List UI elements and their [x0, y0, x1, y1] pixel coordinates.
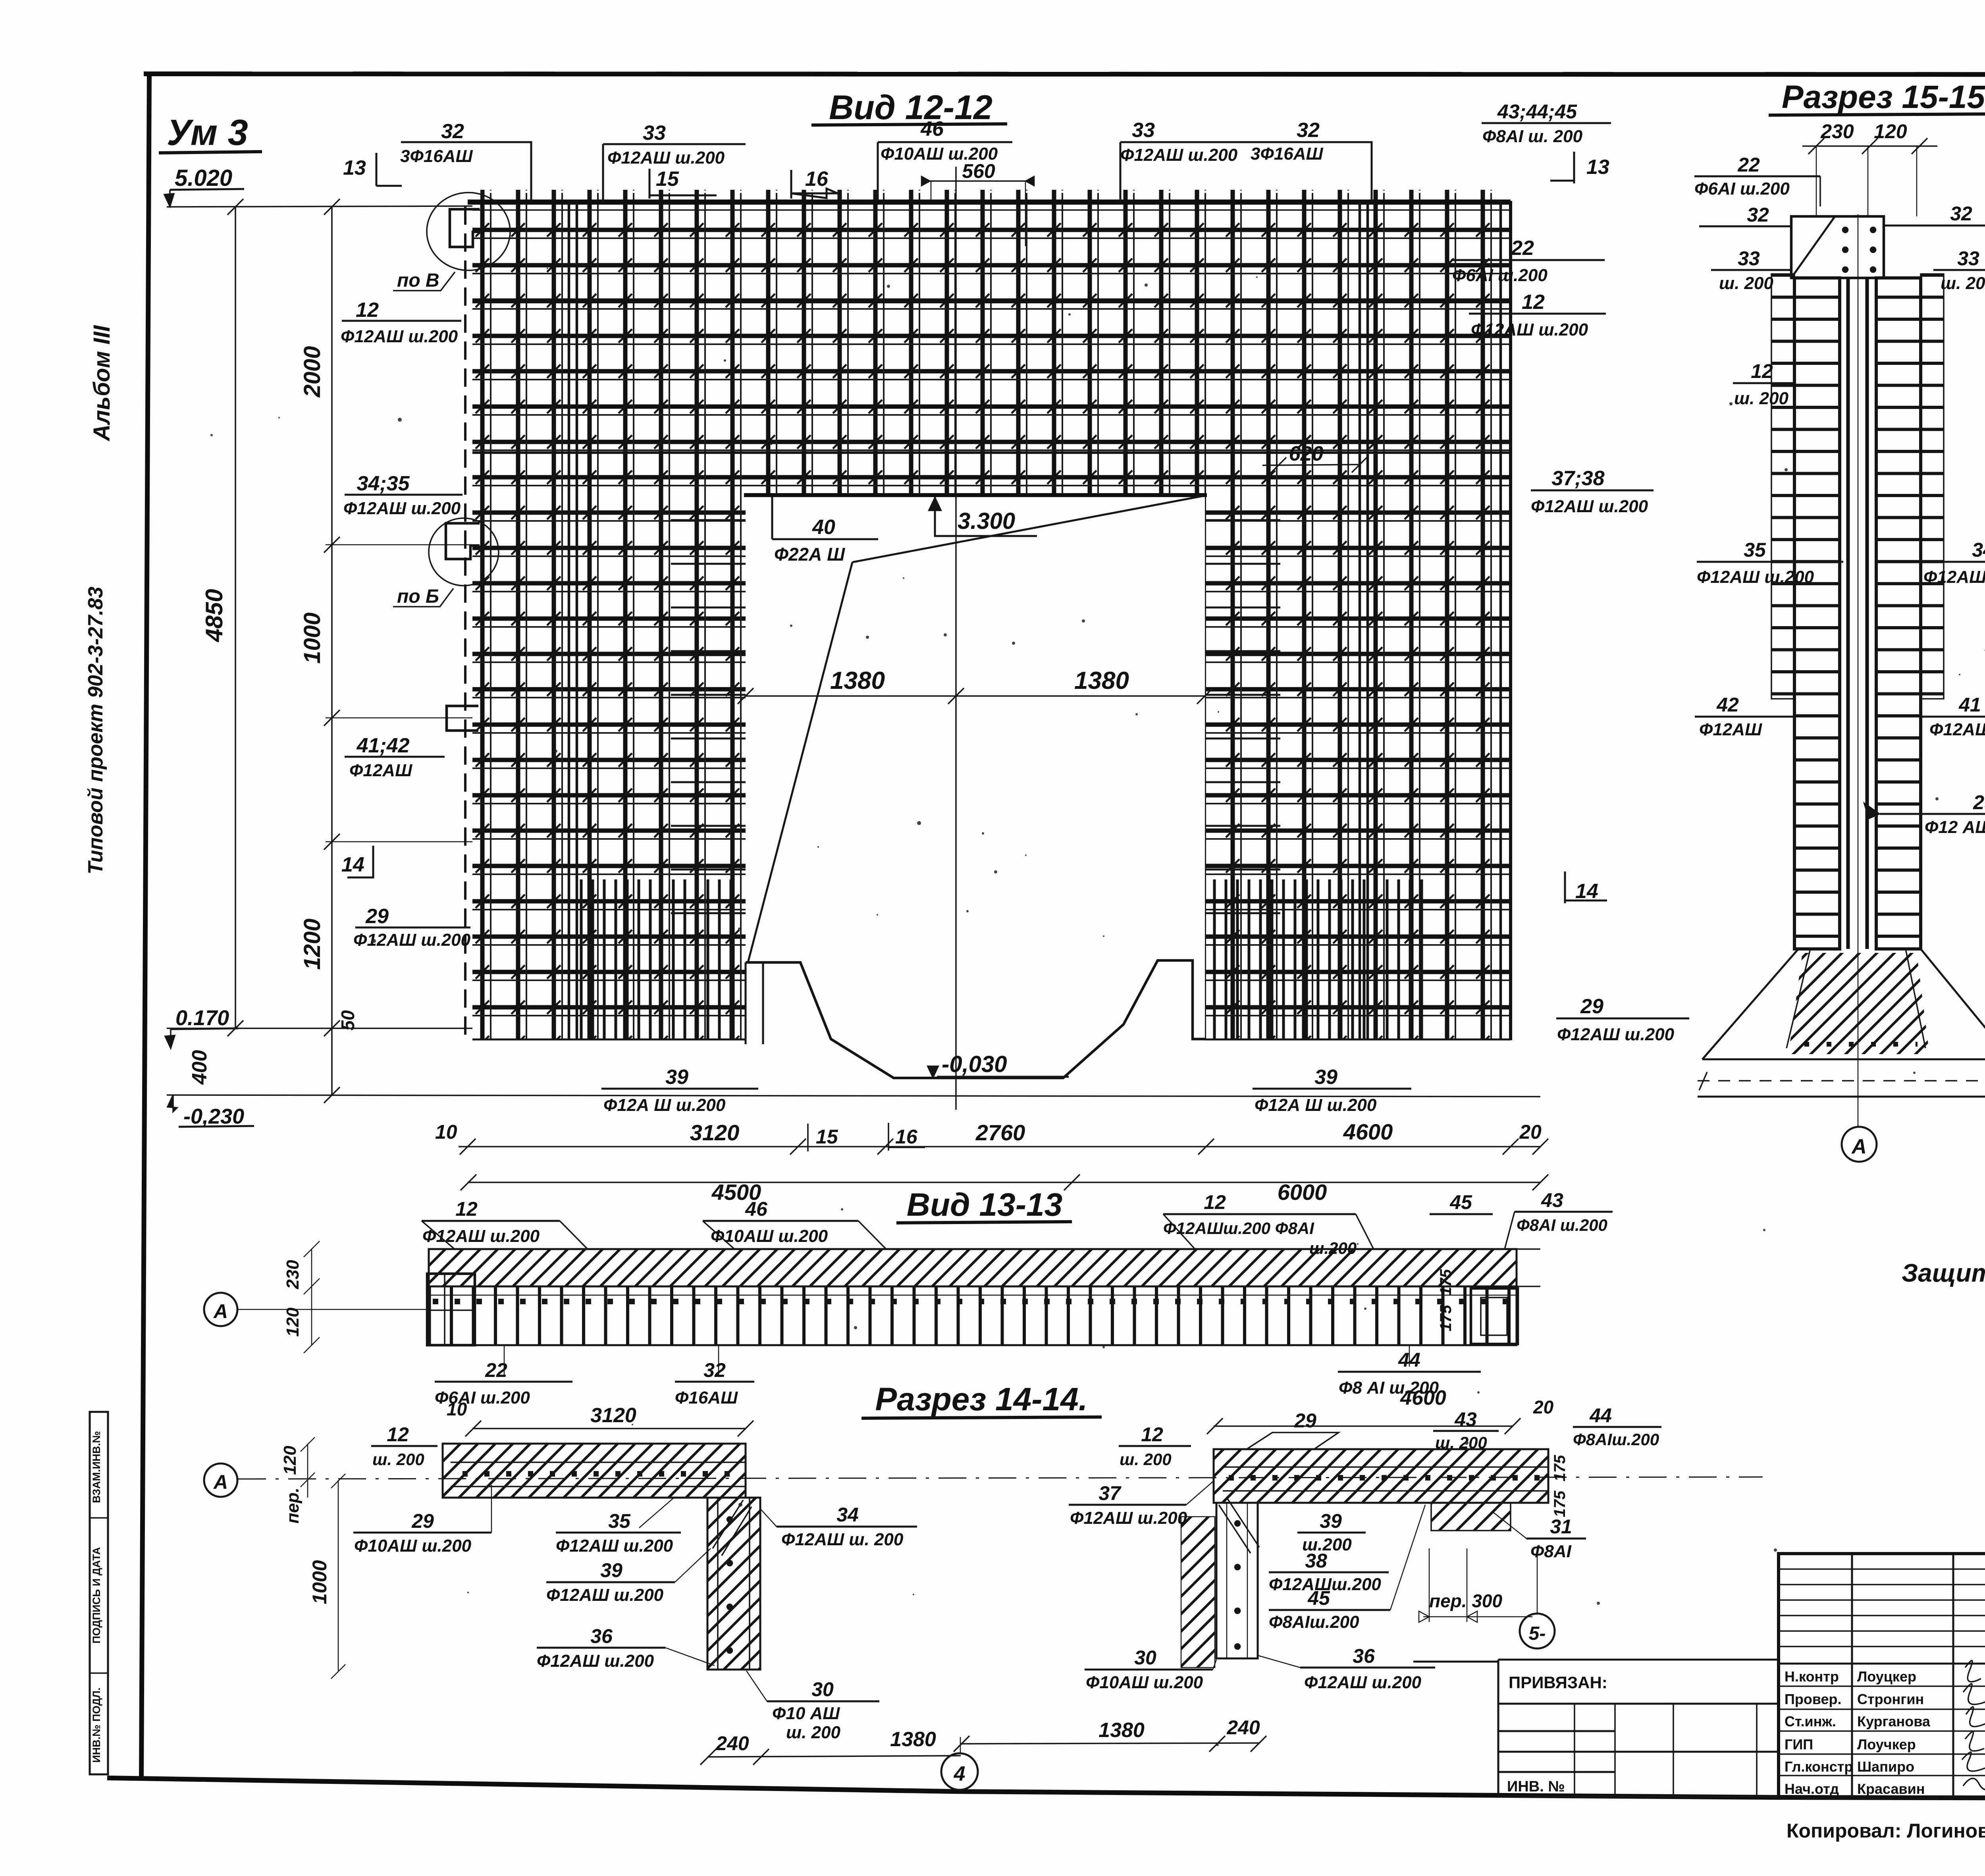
column head box 15-15 [1791, 216, 1884, 278]
svg-text:1380: 1380 [1074, 667, 1129, 694]
svg-text:29: 29 [1580, 995, 1603, 1018]
svg-text:Ф12АШ ш.200: Ф12АШ ш.200 [353, 930, 471, 950]
label 40 Ф22АIII [772, 497, 878, 539]
svg-text:175: 175 [1551, 1490, 1569, 1517]
svg-text:Ф12АШ ш.200: Ф12АШ ш.200 [343, 499, 461, 518]
svg-text:14: 14 [341, 853, 364, 876]
svg-text:Гл.констр: Гл.констр [1785, 1758, 1853, 1775]
svg-text:ш. 200: ш. 200 [786, 1723, 841, 1742]
svg-text:ш.200: ш.200 [1309, 1239, 1357, 1257]
svg-text:ш. 200: ш. 200 [1719, 274, 1774, 293]
svg-text:1000: 1000 [299, 612, 325, 663]
svg-text:ВЗАМ.ИНВ.№: ВЗАМ.ИНВ.№ [91, 1431, 102, 1503]
svg-text:13: 13 [343, 156, 366, 179]
svg-text:Ф10 АШ: Ф10 АШ [772, 1704, 840, 1723]
svg-text:пер. 300: пер. 300 [1429, 1591, 1503, 1611]
right end cap (13-13) [1471, 1288, 1518, 1344]
svg-text:32: 32 [1747, 204, 1769, 226]
slab band left detail [443, 1444, 746, 1498]
trough profile at opening bottom [746, 960, 1206, 1078]
top border [144, 74, 1985, 75]
svg-text:Курганова: Курганова [1857, 1713, 1931, 1729]
svg-text:Ф12АШ ш.200: Ф12АШ ш.200 [1531, 497, 1648, 516]
svg-text:22: 22 [1737, 154, 1760, 176]
dim 3120 above slab [472, 1428, 746, 1429]
svg-text:Вид 12-12: Вид 12-12 [829, 89, 992, 127]
svg-text:1380: 1380 [1098, 1719, 1145, 1742]
svg-text:37: 37 [1098, 1482, 1122, 1504]
svg-text:20: 20 [1519, 1121, 1542, 1143]
svg-text:44: 44 [1589, 1404, 1612, 1427]
svg-text:Лоучкер: Лоучкер [1857, 1736, 1916, 1753]
scan speckles [210, 268, 1985, 1746]
svg-text:ш. 200: ш. 200 [1120, 1450, 1172, 1469]
svg-text:560: 560 [962, 160, 995, 182]
svg-text:ПОДПИСЬ И ДАТА: ПОДПИСЬ И ДАТА [91, 1547, 102, 1643]
ladder band (13-13) [429, 1286, 1517, 1345]
svg-text:Ф12АШ ш.200: Ф12АШ ш.200 [1697, 567, 1814, 587]
svg-text:2000: 2000 [299, 346, 325, 397]
svg-text:ш. 200: ш. 200 [1734, 389, 1789, 408]
corner brace left detail [713, 1500, 752, 1556]
svg-text:33: 33 [1132, 119, 1155, 142]
hook detail 3 [447, 706, 478, 731]
svg-text:30: 30 [1134, 1647, 1156, 1669]
svg-text:41: 41 [1958, 694, 1981, 716]
svg-text:ПРИВЯЗАН:: ПРИВЯЗАН: [1509, 1673, 1607, 1692]
svg-text:45: 45 [1449, 1191, 1472, 1213]
svg-text:3120: 3120 [690, 1120, 740, 1145]
svg-text:16: 16 [805, 168, 829, 191]
dim 230/120 (13-13 left) [311, 1249, 312, 1345]
svg-text:Нач.отд: Нач.отд [1785, 1781, 1839, 1797]
svg-text:Ф12АШ: Ф12АШ [349, 761, 412, 780]
svg-text:36: 36 [1353, 1645, 1375, 1667]
svg-text:по В: по В [397, 270, 439, 291]
svg-text:5-: 5- [1529, 1623, 1546, 1644]
svg-text:620: 620 [1289, 442, 1324, 465]
bottom dim line 2 [468, 1182, 1540, 1183]
svg-text:230: 230 [1820, 120, 1854, 143]
left border [141, 74, 149, 1780]
svg-text:29: 29 [365, 905, 389, 928]
svg-text:Ф22А Ш: Ф22А Ш [774, 544, 845, 565]
circle 4 mark [941, 1753, 978, 1790]
footing 15-15 [1702, 949, 1985, 1059]
svg-text:Ф8АI ш. 200: Ф8АI ш. 200 [1482, 127, 1583, 146]
mesh bottom edge [472, 1039, 746, 1041]
svg-text:0.170: 0.170 [175, 1006, 229, 1030]
svg-text:Ст.инж.: Ст.инж. [1785, 1713, 1836, 1729]
svg-text:Защитный слой бетона - 20 мм.: Защитный слой бетона - 20 мм. [1902, 1259, 1985, 1287]
svg-text:Шапиро: Шапиро [1857, 1758, 1914, 1775]
center axis 15-15 [1858, 214, 1859, 1127]
svg-text:Провер.: Провер. [1785, 1691, 1842, 1707]
svg-text:12: 12 [455, 1198, 478, 1220]
datum line top (5.020 level) [167, 206, 472, 207]
svg-text:4600: 4600 [1343, 1119, 1393, 1144]
svg-text:43: 43 [1454, 1408, 1477, 1431]
left hidden edge dashed [464, 206, 466, 1040]
central wall lines (15-15) [1848, 278, 1867, 949]
svg-text:39: 39 [665, 1066, 688, 1089]
svg-text:Ф12АШ: Ф12АШ [1699, 720, 1762, 739]
svg-text:ш. 200: ш. 200 [372, 1450, 424, 1469]
svg-text:Красавин: Красавин [1857, 1781, 1925, 1797]
title block outer frame [1779, 1554, 1985, 1798]
vertical leg right detail [1216, 1503, 1258, 1658]
svg-text:Ф12АШ ш.200: Ф12АШ ш.200 [1923, 567, 1985, 587]
svg-text:33: 33 [1957, 247, 1979, 270]
svg-text:33: 33 [643, 121, 666, 145]
dim 240 1380 (left detail) [707, 1756, 961, 1757]
svg-text:Н.контр: Н.контр [1785, 1668, 1839, 1685]
svg-text:10: 10 [447, 1399, 467, 1419]
svg-text:41;42: 41;42 [357, 734, 410, 757]
svg-text:2760: 2760 [975, 1120, 1025, 1145]
svg-text:34: 34 [836, 1504, 859, 1526]
svg-text:5.020: 5.020 [175, 165, 232, 191]
axis circle A (14-14) [204, 1463, 237, 1497]
svg-text:35: 35 [1744, 539, 1766, 561]
dim ticks on left chains [227, 199, 340, 1103]
outer strip right (15-15) [1921, 274, 1944, 699]
long line left of Привязан [1413, 1661, 1498, 1663]
svg-text:12: 12 [387, 1423, 409, 1446]
svg-text:32: 32 [441, 120, 464, 143]
svg-text:Ф12АШ ш. 200: Ф12АШ ш. 200 [781, 1530, 904, 1549]
svg-text:175: 175 [1437, 1269, 1455, 1296]
svg-text:39: 39 [600, 1559, 622, 1581]
outer strip left (15-15) [1771, 274, 1794, 699]
dim 1380 240 (right detail) [961, 1743, 1258, 1744]
svg-text:32: 32 [1950, 202, 1972, 225]
Привязан box [1498, 1660, 1779, 1797]
svg-text:Ф12АШ ш.200: Ф12АШ ш.200 [537, 1651, 654, 1671]
svg-text:Ф12А Ш ш.200: Ф12А Ш ш.200 [603, 1095, 726, 1115]
svg-text:50: 50 [337, 1010, 358, 1031]
svg-text:175: 175 [1437, 1305, 1455, 1331]
axis circle A (15-15) [1842, 1127, 1877, 1162]
mesh right band [1205, 495, 1511, 1040]
mesh left band [472, 495, 746, 1040]
opening centerline axis [955, 167, 957, 1110]
thin rows top-left [1779, 1569, 1985, 1647]
svg-text:12: 12 [356, 299, 379, 322]
denser sub-grid bottom-left [574, 879, 732, 1039]
svg-text:А: А [213, 1471, 228, 1493]
heavy vertical bar right [1499, 201, 1502, 1039]
svg-text:39: 39 [1314, 1066, 1337, 1089]
svg-text:Ум 3: Ум 3 [167, 112, 248, 153]
svg-text:46: 46 [745, 1198, 768, 1220]
svg-text:36: 36 [590, 1625, 613, 1647]
svg-text:Ф12АШ ш.200: Ф12АШ ш.200 [546, 1585, 664, 1605]
svg-text:42: 42 [1716, 694, 1739, 716]
svg-text:240: 240 [715, 1732, 749, 1755]
svg-text:Ф8АIш.200: Ф8АIш.200 [1269, 1612, 1359, 1632]
svg-text:3Ф16АШ: 3Ф16АШ [400, 147, 473, 166]
svg-text:Ф6АI ш.200: Ф6АI ш.200 [1694, 179, 1790, 199]
hook detail по Б with circle [446, 523, 480, 559]
dim 1000 left [338, 1480, 339, 1671]
svg-text:38: 38 [1305, 1550, 1327, 1572]
bottom dim line 1 [459, 1146, 1540, 1147]
svg-text:Копировал: Логинова: Копировал: Логинова [1786, 1820, 1985, 1842]
svg-text:Альбом III: Альбом III [89, 325, 115, 442]
dim 4600 above right slab [1214, 1425, 1513, 1427]
opening slant line lower [748, 562, 852, 962]
svg-text:15: 15 [656, 168, 679, 191]
svg-text:Ф12АШ ш.200: Ф12АШ ш.200 [1471, 320, 1588, 339]
svg-text:Ф12АШ ш.200: Ф12АШ ш.200 [1070, 1508, 1187, 1528]
bottom border [107, 1778, 1985, 1799]
mesh right edge [1509, 201, 1512, 1040]
svg-text:30: 30 [811, 1678, 834, 1701]
vertical leg left detail [707, 1498, 760, 1670]
svg-text:400: 400 [188, 1050, 211, 1085]
svg-text:ГИП: ГИП [1785, 1736, 1813, 1753]
left dim line 2000/1000/1200 [331, 207, 333, 1095]
svg-text:230: 230 [283, 1260, 303, 1290]
svg-text:А: А [1851, 1135, 1867, 1158]
svg-text:120: 120 [280, 1446, 300, 1475]
heavy vertical bar pair 1 [569, 201, 577, 1039]
svg-text:29: 29 [1973, 791, 1985, 814]
svg-text:12: 12 [1204, 1191, 1226, 1213]
dim 1380 1380 [746, 695, 1205, 697]
svg-text:32: 32 [703, 1359, 726, 1381]
svg-text:Ф12 АШ ш.200: Ф12 АШ ш.200 [1925, 817, 1985, 837]
svg-text:ИНВ.№ ПОДЛ.: ИНВ.№ ПОДЛ. [91, 1687, 102, 1762]
denser sub-grid bottom-right [1211, 879, 1425, 1039]
rebar stubs into opening right [1205, 520, 1280, 913]
svg-text:по Б: по Б [397, 586, 439, 607]
svg-text:175: 175 [1551, 1455, 1569, 1481]
svg-text:13: 13 [1586, 156, 1609, 179]
heavy horizontal bar 12 [472, 451, 1511, 454]
svg-text:Ф12АШ ш.200: Ф12АШ ш.200 [556, 1536, 673, 1556]
svg-text:12: 12 [1141, 1423, 1163, 1446]
left ladder (15-15) [1794, 278, 1840, 949]
datum tick lines left [326, 544, 472, 546]
svg-text:пер.: пер. [283, 1488, 303, 1523]
svg-text:Типовой проект 902-3-27.83: Типовой проект 902-3-27.83 [84, 586, 107, 874]
svg-text:10: 10 [435, 1121, 457, 1143]
svg-text:22: 22 [1511, 237, 1534, 260]
svg-text:6000: 6000 [1278, 1180, 1327, 1205]
svg-text:1380: 1380 [890, 1728, 936, 1751]
svg-text:Ф12АШ ш.200: Ф12АШ ш.200 [1304, 1673, 1422, 1692]
svg-text:Ф12АШш.200 Ф8АI: Ф12АШш.200 Ф8АI [1163, 1219, 1314, 1238]
slab band right detail [1214, 1449, 1548, 1503]
centerline to circle 4 [960, 1737, 961, 1754]
svg-text:1000: 1000 [308, 1560, 331, 1604]
svg-text:Ф8АIш.200: Ф8АIш.200 [1573, 1430, 1659, 1449]
corner brace right detail [1219, 1499, 1259, 1553]
svg-text:4600: 4600 [1400, 1386, 1446, 1409]
svg-text:34;35: 34;35 [357, 472, 410, 495]
staff row lines [1779, 1686, 1985, 1776]
svg-text:Ф12АШ ш.200: Ф12АШ ш.200 [1120, 145, 1238, 165]
svg-text:Ф12АШ ш.200: Ф12АШ ш.200 [1557, 1025, 1675, 1044]
wall top edge thick [468, 200, 1511, 205]
svg-text:Ф16АШ: Ф16АШ [675, 1388, 738, 1407]
svg-text:39: 39 [1320, 1510, 1342, 1532]
heavy horizontal bar 22 [472, 300, 1511, 303]
svg-text:40: 40 [812, 516, 835, 539]
svg-text:Ф8АI: Ф8АI [1530, 1542, 1572, 1561]
svg-text:33: 33 [1738, 247, 1760, 270]
svg-text:4850: 4850 [201, 589, 227, 642]
right ladder (15-15) [1876, 278, 1921, 949]
svg-text:1200: 1200 [299, 918, 325, 970]
svg-text:Ф8АI ш.200: Ф8АI ш.200 [1517, 1216, 1607, 1234]
wall top edge double thin line [472, 209, 1511, 211]
svg-text:Ф12А Ш ш.200: Ф12А Ш ш.200 [1255, 1095, 1377, 1115]
heavy vertical bar pair 2 [1360, 201, 1368, 1039]
left dim line 4850 [235, 207, 236, 1028]
svg-text:43;44;45: 43;44;45 [1497, 100, 1577, 123]
svg-text:35: 35 [608, 1510, 631, 1532]
svg-text:37;38: 37;38 [1552, 467, 1605, 490]
svg-text:46: 46 [920, 118, 944, 141]
svg-text:Ф10АШ ш.200: Ф10АШ ш.200 [1086, 1673, 1203, 1692]
svg-text:Ф12АШ ш.200: Ф12АШ ш.200 [607, 148, 725, 168]
svg-text:29: 29 [1294, 1409, 1316, 1432]
opening top edge [744, 493, 1207, 497]
circle 5 mark [1520, 1614, 1555, 1648]
svg-text:-0,030: -0,030 [942, 1051, 1007, 1077]
hatched band (13-13) [429, 1249, 1517, 1286]
axis line (13-13) [238, 1309, 429, 1310]
mesh top band [472, 201, 1511, 495]
end hatch block right [1431, 1503, 1511, 1531]
svg-text:34: 34 [1972, 539, 1985, 561]
svg-text:Ф12АШ ш.200: Ф12АШ ш.200 [341, 327, 458, 346]
svg-text:ИНВ. №: ИНВ. № [1507, 1778, 1565, 1795]
svg-text:3.300: 3.300 [958, 508, 1015, 534]
svg-text:45: 45 [1307, 1587, 1330, 1609]
svg-text:16: 16 [895, 1126, 918, 1148]
svg-text:120: 120 [283, 1307, 303, 1337]
svg-text:Стронгин: Стронгин [1857, 1691, 1924, 1707]
svg-text:3Ф16АШ: 3Ф16АШ [1251, 144, 1324, 164]
svg-text:1380: 1380 [830, 667, 885, 694]
signatures squiggles [1962, 1660, 1985, 1790]
svg-text:43: 43 [1541, 1189, 1563, 1211]
vertical bar tips above top edge [480, 190, 1505, 202]
svg-text:Ф6АI ш.200: Ф6АI ш.200 [1452, 266, 1548, 285]
svg-text:12: 12 [1751, 360, 1773, 382]
svg-text:12: 12 [1522, 291, 1545, 314]
svg-text:Лоуцкер: Лоуцкер [1857, 1668, 1916, 1685]
hook detail top-left with circle [450, 209, 480, 247]
svg-text:ш. 200: ш. 200 [1435, 1433, 1487, 1452]
svg-text:15: 15 [816, 1126, 838, 1148]
svg-text:Разрез 15-15: Разрез 15-15 [1782, 79, 1985, 115]
svg-text:-0,230: -0,230 [183, 1105, 244, 1128]
svg-text:29: 29 [411, 1510, 434, 1532]
svg-text:Вид 13-13: Вид 13-13 [907, 1187, 1063, 1223]
svg-text:3120: 3120 [590, 1404, 636, 1427]
svg-text:32: 32 [1297, 119, 1320, 142]
svg-text:14: 14 [1575, 880, 1598, 903]
svg-text:240: 240 [1226, 1716, 1260, 1739]
axis line 14-14 [238, 1477, 1763, 1479]
svg-text:ш. 200: ш. 200 [1941, 274, 1985, 293]
opening slant line upper [852, 496, 1203, 562]
svg-text:Ф12АШ: Ф12АШ [1929, 720, 1985, 739]
rebar stubs into opening left [671, 520, 746, 913]
svg-text:4: 4 [954, 1762, 966, 1785]
main horizontal lines [1779, 1619, 1985, 1725]
level mark 3.300 [935, 497, 1037, 536]
left end cap (13-13) [427, 1274, 475, 1345]
svg-text:31: 31 [1550, 1515, 1572, 1538]
hatch strip left of leg [1181, 1517, 1215, 1668]
svg-text:20: 20 [1533, 1397, 1554, 1417]
MARGIN STAMP STRIP bottom-left [90, 1412, 108, 1774]
svg-text:120: 120 [1874, 120, 1907, 143]
title block vertical dividers [1852, 1554, 1985, 1798]
svg-text:Разрез 14-14.: Разрез 14-14. [875, 1381, 1088, 1417]
svg-text:Ф10АШ ш.200: Ф10АШ ш.200 [354, 1536, 472, 1556]
axis circle A (13-13) [204, 1293, 237, 1326]
svg-text:А: А [213, 1300, 228, 1323]
